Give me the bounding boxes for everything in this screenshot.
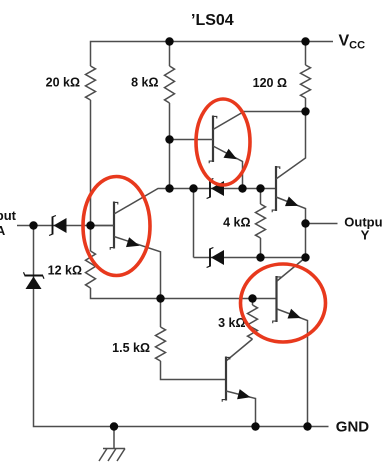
node in1 — [29, 221, 37, 229]
highlight ellipse around Q2 — [196, 99, 250, 185]
node n3a — [156, 294, 164, 302]
wire 3k to Q5 collector — [226, 339, 253, 361]
resistor R2 8k — [165, 66, 175, 103]
node vcc-8k — [165, 37, 173, 45]
resistor R1 20k — [86, 66, 96, 100]
transistor Q5 — [225, 357, 227, 401]
svg-text:8 kΩ: 8 kΩ — [131, 76, 158, 90]
wire 3k top lead — [252, 299, 254, 306]
node q2b — [165, 135, 173, 143]
node n2a — [256, 253, 264, 261]
node in2 — [86, 221, 94, 229]
schottky diode D1 input — [52, 217, 54, 235]
wire vertical link — [193, 189, 195, 258]
svg-text:Input: Input — [0, 208, 17, 223]
transistor Q1 — [113, 202, 115, 249]
transistor Q2 — [212, 116, 214, 163]
svg-text:3 kΩ: 3 kΩ — [218, 316, 245, 330]
highlight ellipse around Q1 — [83, 177, 150, 276]
svg-text:’LS04: ’LS04 — [191, 12, 234, 29]
svg-text:20 kΩ: 20 kΩ — [46, 76, 80, 90]
node n2b — [301, 253, 309, 261]
svg-text:4 kΩ: 4 kΩ — [223, 216, 250, 230]
wire input node to 12k — [90, 226, 92, 252]
wire 8k stub — [169, 42, 171, 67]
node n1d — [256, 184, 264, 192]
transistor Q3 — [275, 166, 277, 211]
node gnd2 — [251, 422, 259, 430]
wire 20k to input node — [90, 100, 92, 226]
wire 120ohm stub — [305, 42, 307, 66]
wire 1.5k top lead — [160, 299, 162, 328]
node outY — [301, 219, 309, 227]
wire 4k leads — [260, 189, 262, 258]
wire 8k to Q2 base node — [169, 103, 171, 189]
schottky diode D3 — [209, 180, 211, 198]
node vcc-120 — [301, 37, 309, 45]
ground symbol — [103, 427, 125, 449]
node n1b — [189, 184, 197, 192]
wire input clamp column and GND rail — [34, 226, 329, 427]
highlight ellipse around Q4 — [241, 264, 326, 342]
node q2c — [301, 107, 309, 115]
schottky diode D2 clamp — [25, 275, 44, 277]
svg-text:GND: GND — [336, 419, 370, 436]
resistor R5 12k — [86, 251, 96, 288]
svg-text:Y: Y — [361, 228, 370, 243]
svg-text:A: A — [0, 223, 6, 238]
node n1c — [238, 184, 246, 192]
node n3b — [248, 294, 256, 302]
node n1a — [165, 184, 173, 192]
wire 1.5k bottom to Q5 base — [161, 361, 227, 380]
wire output node — [306, 224, 338, 258]
node gnd3 — [303, 422, 311, 430]
wire VCC rail — [91, 42, 334, 67]
resistor R4 4k — [256, 204, 266, 238]
resistor R7 3k — [248, 305, 258, 339]
wire input line — [17, 225, 114, 227]
resistor R3 120 — [301, 65, 311, 98]
svg-text:120 Ω: 120 Ω — [253, 76, 287, 90]
schottky diode D4 — [209, 249, 211, 267]
transistor Q4 — [275, 276, 277, 322]
wire lower node line — [194, 257, 306, 259]
wire node line base Q3 — [170, 188, 277, 190]
wire 120 to Q2 collector node — [305, 98, 307, 112]
resistor R6 1.5k — [156, 327, 166, 361]
svg-text:1.5 kΩ: 1.5 kΩ — [112, 341, 150, 355]
node gnd1 — [110, 422, 118, 430]
wire 12k bottom to base rail — [91, 288, 277, 299]
svg-text:12 kΩ: 12 kΩ — [48, 264, 82, 278]
